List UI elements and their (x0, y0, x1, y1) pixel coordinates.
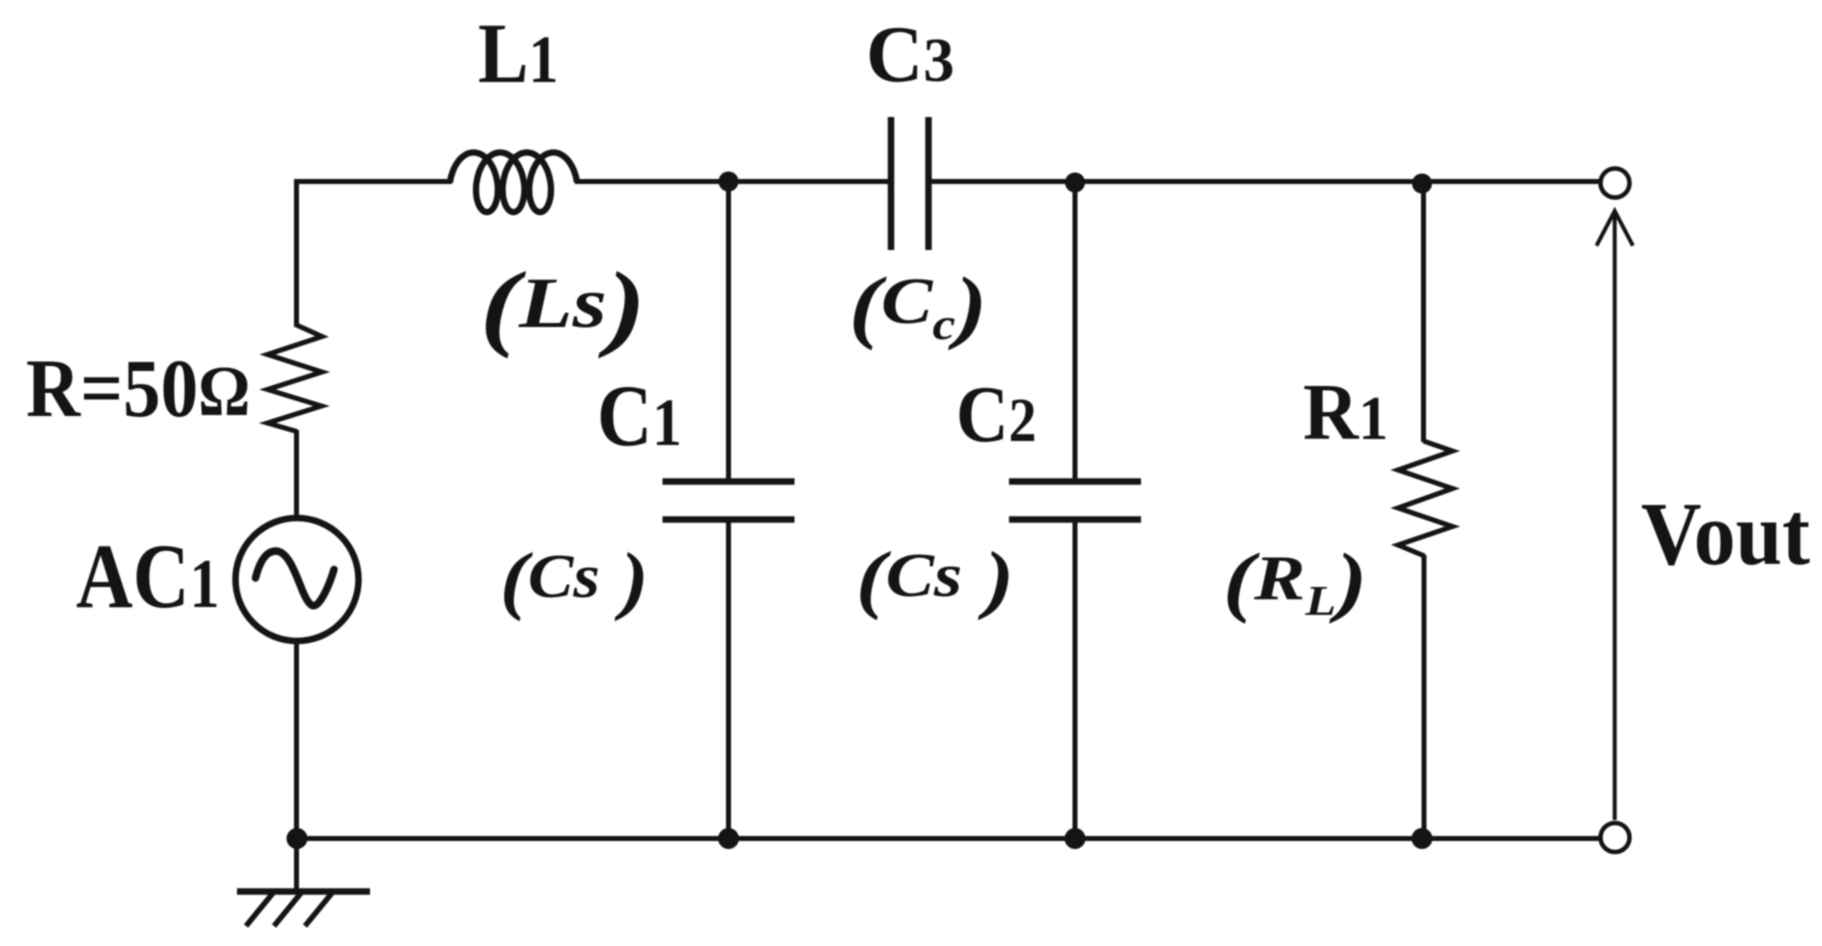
capacitor C3 left plate (888, 117, 895, 250)
wire left vertical top (294, 179, 299, 327)
ground stem (294, 839, 299, 892)
capacitor C2 bottom plate (1009, 516, 1141, 523)
wire source bottom (294, 641, 299, 839)
AC source AC1 circle (236, 518, 359, 641)
svg-text:Vout: Vout (1641, 484, 1810, 583)
svg-text:(Cs ): (Cs ) (856, 536, 1014, 621)
svg-text:AC1: AC1 (76, 525, 220, 627)
terminal top right (1601, 169, 1630, 198)
capacitor C1 top lead (726, 182, 731, 482)
node dot C1 bottom (718, 828, 739, 849)
wire top rail mid segment (575, 179, 888, 184)
ground bar (237, 888, 370, 895)
wire top rail left segment (294, 179, 452, 184)
capacitor C2 top plate (1009, 478, 1141, 485)
svg-text:C1: C1 (597, 367, 682, 464)
capacitor C1 top plate (663, 478, 795, 485)
node dot R1 bottom (1412, 828, 1433, 849)
capacitor C3 right plate (925, 117, 932, 250)
node dot C2 top (1065, 173, 1085, 193)
wire top rail right segment (932, 179, 1601, 184)
capacitor C2 bottom lead (1073, 520, 1078, 839)
Vout arrow shaft (1613, 213, 1617, 820)
svg-text:(Cc): (Cc) (849, 260, 987, 351)
svg-text:C3: C3 (866, 11, 954, 99)
resistor R=50ohm (268, 325, 323, 432)
svg-text:L1: L1 (478, 6, 558, 102)
node dot source bottom (287, 828, 308, 849)
node dot R1 top (1412, 174, 1432, 194)
resistor R1 top lead (1421, 182, 1426, 443)
node dot C2 bottom (1065, 828, 1086, 849)
svg-text:C2: C2 (956, 368, 1037, 458)
svg-text:(RL): (RL) (1223, 537, 1367, 625)
svg-text:(Cs ): (Cs ) (500, 538, 649, 622)
inductor L1 (450, 153, 577, 213)
ground hatch 3 (305, 893, 332, 926)
wire bottom rail (297, 836, 1601, 841)
Vout arrowhead (1597, 211, 1633, 246)
capacitor C1 bottom plate (663, 516, 795, 523)
svg-text:R=50Ω: R=50Ω (26, 343, 250, 435)
capacitor C1 bottom lead (726, 520, 731, 839)
ground hatch 1 (246, 893, 273, 926)
svg-text:R1: R1 (1303, 368, 1388, 457)
AC source sine symbol (256, 551, 335, 606)
node dot C1 top (719, 172, 739, 192)
svg-text:(Ls): (Ls) (480, 254, 646, 360)
resistor R1 zigzag (1398, 441, 1453, 556)
terminal bottom right (1601, 823, 1630, 852)
wire source top (294, 430, 299, 517)
resistor R1 bottom lead (1422, 555, 1427, 839)
capacitor C2 top lead (1073, 182, 1078, 482)
ground hatch 2 (274, 893, 301, 926)
